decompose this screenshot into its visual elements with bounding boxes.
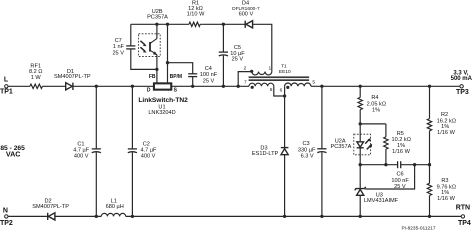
svg-text:C7: C7 <box>115 38 122 44</box>
wire D4 to T1 pin 1 <box>253 24 272 71</box>
wire C4 bottom to rail <box>192 77 194 86</box>
inductor T1 primary winding pins 2-1 <box>244 65 272 75</box>
svg-text:S: S <box>174 87 178 93</box>
node L / TP1 terminal <box>0 76 13 95</box>
svg-text:TP2: TP2 <box>0 220 13 227</box>
svg-text:680 µH: 680 µH <box>106 204 124 210</box>
transistor U2B PC357A opto phototransistor <box>139 9 169 57</box>
svg-text:1%: 1% <box>441 124 449 130</box>
svg-text:25 V: 25 V <box>232 57 244 63</box>
capacitor C4 <box>188 66 218 85</box>
node RTN / TP4 terminal <box>456 205 471 228</box>
wire D2 to L1 <box>55 215 101 217</box>
svg-text:PC357A: PC357A <box>330 144 351 150</box>
T1 core <box>249 76 310 81</box>
svg-text:1 W: 1 W <box>31 75 42 81</box>
inductor L1 680 uH <box>101 198 125 216</box>
junction C3 bottom <box>320 215 323 218</box>
svg-text:TP1: TP1 <box>0 89 13 96</box>
wire BP/M to C4 top <box>168 63 193 74</box>
svg-text:2: 2 <box>244 65 247 71</box>
svg-text:D4: D4 <box>242 0 249 6</box>
svg-text:1: 1 <box>268 65 271 71</box>
junction REF node <box>413 163 416 166</box>
junction T1 pin2 drop <box>237 85 240 88</box>
op-amp U3 LMV431AIMF shunt regulator <box>355 165 399 217</box>
svg-text:1%: 1% <box>441 190 449 196</box>
svg-text:FB: FB <box>149 74 156 80</box>
junction opto emitter / FB <box>155 68 158 71</box>
diode U2A PC357A opto LED <box>330 124 372 165</box>
wire N terminal to D2 <box>8 215 47 217</box>
wire output rail T1 pin5 to TP3 <box>311 85 460 87</box>
op-amp U1 LNK3204D LinkSwitch-TN2 <box>138 74 188 116</box>
wire top rail: U2B to R1 <box>131 23 189 25</box>
capacitor C5 <box>219 24 245 86</box>
wire T1 pin2 lead <box>238 72 252 87</box>
wire LED cathode node across to R2/R3 <box>360 164 397 166</box>
diode D3 ES1D-LTP <box>252 96 288 216</box>
svg-text:C3: C3 <box>303 141 310 147</box>
svg-text:R3: R3 <box>441 178 448 184</box>
wire D1 to U1 drain, with C1/C2 taps <box>73 85 153 87</box>
junction R3 bottom <box>428 215 431 218</box>
resistor R3 <box>427 165 456 217</box>
junction T1 centre tap / D3 <box>283 94 286 97</box>
wire R1 to D4, C5 tap <box>200 23 245 25</box>
svg-text:500 mA: 500 mA <box>451 76 473 82</box>
wire opto collector lead <box>156 24 158 38</box>
svg-text:SM4007PL-TP: SM4007PL-TP <box>32 204 69 210</box>
svg-text:100 nF: 100 nF <box>200 72 218 78</box>
svg-text:1%: 1% <box>372 107 380 113</box>
wire opto emitter lead <box>156 55 158 70</box>
inductor T1 output winding pins 6-5 <box>280 80 316 94</box>
svg-text:N: N <box>3 207 8 214</box>
junction R4 top <box>359 85 362 88</box>
svg-text:5: 5 <box>312 80 315 86</box>
junction BP/M to C4 <box>166 61 169 64</box>
capacitor C7 <box>112 38 135 56</box>
svg-text:25 V: 25 V <box>112 50 124 56</box>
resistor R4 <box>358 86 386 124</box>
node 3.3 V, 500 mA output / TP3 terminal <box>451 71 473 96</box>
svg-text:1/10 W: 1/10 W <box>187 12 205 18</box>
svg-text:6.3 V: 6.3 V <box>301 153 314 159</box>
capacitor C3 <box>298 86 327 216</box>
svg-text:100 nF: 100 nF <box>391 178 409 184</box>
svg-text:330 µF: 330 µF <box>298 147 316 153</box>
junction C3 top <box>320 85 323 88</box>
node T1 pin6b polarity dot <box>286 86 289 89</box>
junction C5 bottom <box>222 85 225 88</box>
resistor R2 <box>427 86 456 164</box>
diode D2 SM4007PL-TP <box>32 198 69 220</box>
svg-text:D: D <box>147 87 151 93</box>
wire U2B left leg lower and bottom edge to FB <box>131 49 157 69</box>
wire U2B left leg upper (C7 top lead) <box>130 24 132 45</box>
wire T1 pin6b down <box>284 86 286 96</box>
svg-text:BP/M: BP/M <box>170 74 183 80</box>
svg-text:400 V: 400 V <box>74 153 89 159</box>
wire R4 bottom to R5 top <box>360 123 386 125</box>
node N / TP2 terminal <box>0 207 13 227</box>
junction C4 bottom <box>191 85 194 88</box>
svg-text:PC357A: PC357A <box>147 14 168 20</box>
junction C5 top <box>222 23 225 26</box>
junction C2 top <box>131 85 134 88</box>
resistor R1 <box>187 0 205 26</box>
junction C2 bottom <box>131 215 134 218</box>
junction R4 bottom / R5 <box>359 122 362 125</box>
svg-text:VAC: VAC <box>6 149 21 158</box>
junction opto collector at top rail <box>155 23 158 26</box>
wire RF1 to D1 <box>42 85 65 87</box>
capacitor C2 <box>128 86 157 216</box>
wire L terminal to RF1 <box>8 85 30 87</box>
capacitor C6 <box>391 161 409 190</box>
node T1 pin7 polarity dot <box>251 86 254 89</box>
svg-text:SM4007PL-TP: SM4007PL-TP <box>54 74 91 80</box>
junction D3 anode <box>283 215 286 218</box>
wire U1 source to T1 pin7, with C4/C5/pin2 taps <box>172 85 249 87</box>
svg-text:R4: R4 <box>371 95 378 101</box>
junction BP/M branch at top rail <box>166 23 169 26</box>
svg-text:TP3: TP3 <box>456 89 469 96</box>
capacitor C1 <box>73 86 101 216</box>
resistor RF1 <box>29 63 43 88</box>
svg-text:LNK3204D: LNK3204D <box>148 110 175 116</box>
junction R5 bottom <box>384 163 387 166</box>
svg-text:2.05 kΩ: 2.05 kΩ <box>367 101 386 107</box>
wire C6 to R2/R3 junction <box>401 164 430 166</box>
svg-text:ES1D-LTP: ES1D-LTP <box>252 151 279 157</box>
wire REF node down to U3 ref <box>365 165 414 189</box>
svg-text:C4: C4 <box>205 66 212 72</box>
junction LED cathode <box>359 163 362 166</box>
svg-text:LinkSwitch-TN2: LinkSwitch-TN2 <box>138 97 188 104</box>
junction U3 anode <box>359 215 362 218</box>
diode D1 SM4007PL-TP <box>54 69 91 90</box>
svg-text:RTN: RTN <box>456 205 470 212</box>
svg-text:1/16 W: 1/16 W <box>392 149 410 155</box>
resistor R5 <box>384 124 411 165</box>
wire T1 pin6 jog to D3 node <box>274 86 285 96</box>
svg-text:400 V: 400 V <box>141 153 156 159</box>
svg-text:6: 6 <box>280 87 283 93</box>
transformer T1 EE10 labels <box>279 63 291 75</box>
svg-text:L: L <box>4 76 9 83</box>
svg-text:PI-8235-011217: PI-8235-011217 <box>401 226 435 232</box>
junction D1-C1 <box>95 85 98 88</box>
node T1 pin2 polarity dot <box>250 70 253 73</box>
svg-text:1/16 W: 1/16 W <box>437 196 455 202</box>
wire BP/M branch vertical <box>167 24 169 83</box>
diode D4 DFLR1600-7 <box>232 0 260 28</box>
svg-text:T1: T1 <box>281 63 287 69</box>
junction R2 top <box>428 85 431 88</box>
inductor T1 winding pins 7-6 <box>244 80 274 94</box>
net label 85 - 265 VAC <box>0 145 25 159</box>
svg-text:1/16 W: 1/16 W <box>437 130 455 136</box>
svg-text:6: 6 <box>270 87 273 93</box>
svg-text:600 V: 600 V <box>239 12 254 18</box>
wire FB pin <box>156 69 158 83</box>
svg-text:R2: R2 <box>441 112 448 118</box>
svg-text:7: 7 <box>244 80 247 86</box>
svg-text:C2: C2 <box>143 141 150 147</box>
svg-text:EE10: EE10 <box>279 69 291 75</box>
svg-text:25 V: 25 V <box>203 78 215 84</box>
junction R2/R3 divider tap <box>428 163 431 166</box>
junction C1 bottom <box>95 215 98 218</box>
svg-text:C6: C6 <box>397 172 404 178</box>
svg-text:TP4: TP4 <box>458 220 471 227</box>
wire bottom rail L1 to TP4 <box>126 215 461 217</box>
svg-text:LMV431AIMF: LMV431AIMF <box>364 198 399 204</box>
svg-text:C1: C1 <box>77 141 84 147</box>
svg-text:1 nF: 1 nF <box>113 44 125 50</box>
